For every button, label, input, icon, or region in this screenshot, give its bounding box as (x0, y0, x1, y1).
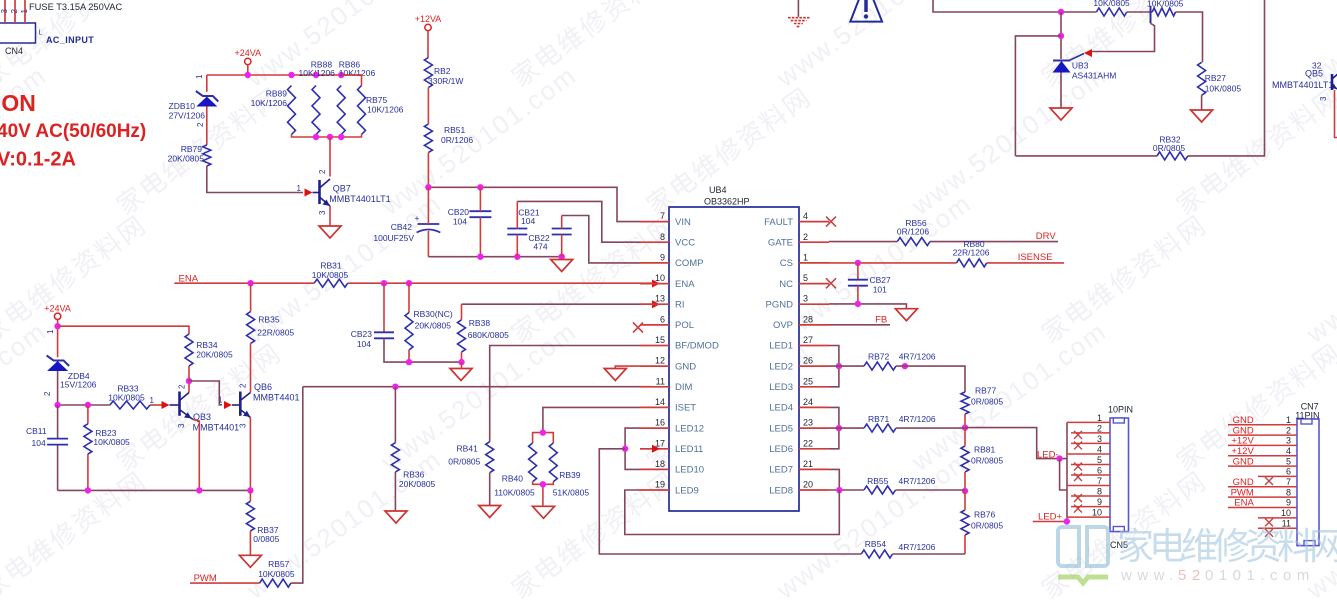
resistor RB76 (961, 510, 1003, 536)
wire ENA net (174, 282, 652, 284)
svg-text:5: 5 (1286, 456, 1291, 466)
svg-text:9: 9 (1286, 498, 1291, 508)
svg-text:26: 26 (803, 356, 813, 366)
svg-text:11PIN: 11PIN (1295, 411, 1319, 421)
junction rail RB23 (85, 487, 91, 493)
wire ZDB10 cathode (206, 75, 208, 92)
svg-text:14: 14 (655, 397, 665, 407)
shunt regulator UB3 AS431AHM (1053, 54, 1117, 81)
pin number 2 of QB6 (239, 383, 248, 388)
svg-text:CS: CS (780, 258, 793, 269)
wire RB54 to ladder (893, 553, 966, 555)
svg-text:DRV: DRV (1036, 231, 1057, 242)
svg-text:27: 27 (803, 335, 813, 345)
wire RB23 leads (87, 405, 89, 490)
svg-text:9: 9 (1097, 497, 1102, 507)
pin number 1 of CN4 (20, 9, 29, 14)
svg-text:RB76: RB76 (974, 510, 996, 520)
svg-text:RB51: RB51 (444, 125, 466, 135)
svg-text:1: 1 (1097, 413, 1102, 423)
pin number 1 of QB3 (150, 396, 155, 405)
svg-text:GND: GND (1233, 415, 1254, 426)
svg-text:2: 2 (43, 391, 52, 396)
wire LED8 to RB55 (829, 489, 864, 491)
svg-text:10K/1206: 10K/1206 (251, 98, 288, 108)
pin number 3 of QB3 (177, 423, 186, 428)
pin number 2 of ZDB4 (43, 391, 52, 396)
svg-text:6: 6 (660, 314, 665, 324)
svg-text:www.520101.com: www.520101.com (905, 315, 1112, 477)
wire CB27 top lead (857, 263, 859, 280)
svg-text:13: 13 (655, 294, 665, 304)
net label LED+ (1038, 512, 1062, 523)
transistor QB6 (224, 382, 300, 418)
wire LED4 LED6 bracket (829, 407, 839, 448)
svg-text:101: 101 (873, 285, 887, 295)
svg-text:104: 104 (357, 339, 371, 349)
svg-text:RB72: RB72 (868, 352, 890, 362)
svg-text:10K/1206: 10K/1206 (339, 68, 376, 78)
wire RB71 to ladder (896, 427, 965, 429)
resistor RB88 (299, 60, 336, 135)
resistor divider top left 10K/0805 (1093, 0, 1130, 16)
junction base line RB23 (85, 402, 91, 408)
no-connect X on CN7 pin 10 (1265, 518, 1273, 526)
svg-text:10K/0805: 10K/0805 (93, 437, 130, 447)
svg-text:CB42: CB42 (391, 222, 413, 232)
junction ENA CB23 (381, 280, 387, 286)
svg-text:6: 6 (1286, 467, 1291, 477)
wire CB23 RB30 RB38 bottom rail (384, 338, 462, 362)
wire RB79 to QB7 base (207, 166, 303, 193)
wire QB3 emitter (193, 420, 199, 491)
wire RB75 top corner (341, 75, 361, 86)
svg-text:+: + (415, 214, 420, 223)
svg-text:7: 7 (660, 211, 665, 221)
junction RB30 bottom (406, 359, 412, 365)
wire PWM net (190, 582, 260, 584)
connector CN7 11PIN (1228, 402, 1320, 546)
svg-text:474: 474 (533, 242, 547, 252)
junction RB72 out (902, 363, 908, 369)
wire RB37 top lead (249, 490, 251, 501)
svg-text:2: 2 (178, 384, 187, 389)
divider tap bar (1150, 6, 1152, 24)
svg-text:3: 3 (239, 423, 248, 428)
svg-text:2: 2 (239, 383, 248, 388)
svg-text:LED5: LED5 (769, 423, 793, 434)
junction LED2 bracket (836, 363, 842, 369)
resistor RB33 (108, 384, 150, 410)
wire bottom rail RB32 (1015, 0, 1264, 156)
ground PGND (895, 309, 917, 321)
svg-text:7: 7 (1286, 477, 1291, 487)
resistor RB35 (247, 312, 295, 344)
wire QB3 collector (188, 381, 190, 393)
svg-text:OVP: OVP (773, 320, 793, 331)
wire GND pin12 (615, 366, 640, 368)
ground QB7 emitter (319, 226, 341, 238)
svg-text:+24VA: +24VA (44, 304, 71, 314)
wire RB57 to DIM line (291, 387, 303, 583)
pin connect arrow UB3 ref (1084, 49, 1092, 57)
pin number 3 of QB5 (1319, 96, 1328, 101)
svg-text:4R7/1206: 4R7/1206 (899, 542, 936, 552)
wire VCC feed via CB21 (517, 201, 640, 242)
power +12VA (top) (415, 14, 442, 58)
svg-text:10: 10 (1092, 508, 1102, 518)
svg-text:20K/0805: 20K/0805 (196, 350, 233, 360)
svg-text:4R7/1206: 4R7/1206 (899, 414, 936, 424)
wire CB21 leads (516, 201, 518, 256)
junction CB21 bottom (514, 254, 520, 260)
svg-text:AC_INPUT: AC_INPUT (46, 35, 94, 45)
svg-text:RB71: RB71 (868, 414, 890, 424)
svg-text:16: 16 (655, 418, 665, 428)
resistor RB51 (424, 124, 473, 153)
svg-text:24: 24 (803, 397, 813, 407)
ground GND pin12 (604, 369, 626, 381)
pin number 3 of QB6 (239, 423, 248, 428)
svg-text:RB89: RB89 (266, 89, 288, 99)
wire QB7 emitter (329, 206, 331, 226)
svg-text:QB5: QB5 (1305, 69, 1323, 79)
wire RB2 to RB51 (427, 88, 429, 125)
svg-text:2: 2 (803, 232, 808, 242)
wire LED1 LED3 bracket (829, 346, 839, 387)
svg-text:+12V: +12V (1231, 446, 1254, 457)
resistor RB54 (861, 539, 935, 558)
wire COMP feed via CB22 (562, 216, 640, 263)
svg-text:RB39: RB39 (559, 470, 581, 480)
svg-text:RB31: RB31 (320, 261, 342, 271)
junction LED- (1056, 455, 1062, 461)
no-connect X on POL pin 6 (633, 323, 643, 333)
wire LED- lower link (1060, 459, 1067, 490)
svg-text:CB11: CB11 (26, 426, 47, 436)
svg-text:104: 104 (521, 216, 535, 226)
svg-text:1: 1 (803, 252, 808, 262)
wire emitter bottom rail (58, 489, 251, 491)
wire RB55 to ladder (896, 489, 966, 491)
svg-text:18: 18 (655, 459, 665, 469)
resistor RB23 (84, 424, 130, 454)
pin number 2 of QB7 (318, 169, 327, 174)
junction ENA RB30 (406, 280, 412, 286)
svg-text:5: 5 (1097, 455, 1102, 465)
svg-text:51K/0805: 51K/0805 (553, 488, 590, 498)
resistor RB56 (897, 218, 930, 246)
power +24VA (left) (44, 304, 71, 358)
wire LED12 LED10 bracket (625, 428, 640, 469)
svg-text:10K/0805: 10K/0805 (258, 569, 295, 579)
wire divider tap to UB3 ref (1091, 23, 1155, 51)
power +24VA (top) (234, 48, 261, 75)
svg-text:6: 6 (1097, 466, 1102, 476)
wire LED9 loop (625, 490, 840, 535)
svg-text:LED-: LED- (1037, 450, 1059, 461)
ground RB38 (450, 362, 472, 380)
svg-text:2: 2 (318, 169, 327, 174)
svg-text:VIN: VIN (675, 217, 691, 228)
svg-text:FAULT: FAULT (764, 217, 793, 228)
pin number 1 of QB7 (297, 184, 302, 193)
svg-text:NC: NC (779, 279, 793, 290)
svg-text:17: 17 (655, 438, 665, 448)
svg-text:52: 52 (1178, 567, 1206, 584)
junction RB86 top (338, 72, 344, 78)
pin number 2 of QB3 (178, 384, 187, 389)
no-connect X on CN5 pin 3 (1074, 441, 1082, 449)
warning triangle symbol (850, 0, 882, 22)
zener ZDB10 (169, 91, 219, 121)
wire CB42 leads (427, 187, 429, 256)
svg-text:20: 20 (803, 480, 813, 490)
resistor RB36 (391, 443, 435, 489)
junction RB40 RB39 bottom (540, 481, 546, 487)
wire RB38 top lead (461, 304, 463, 320)
svg-text:CB27: CB27 (870, 275, 892, 285)
no-connect X on CN5 pin 5 (1074, 462, 1082, 470)
svg-text:LED4: LED4 (769, 403, 793, 414)
net label FB (875, 315, 887, 326)
svg-text:GND: GND (1233, 425, 1254, 436)
wire QB7 collector (329, 137, 331, 177)
svg-text:1: 1 (46, 329, 55, 334)
svg-text:RB77: RB77 (975, 386, 997, 396)
svg-text:www.520101.com: www.520101.com (770, 0, 977, 93)
svg-text:RB79: RB79 (181, 144, 203, 154)
svg-text:1: 1 (195, 74, 204, 79)
svg-text:ION: ION (0, 90, 36, 116)
wire base line (58, 404, 110, 406)
junction rail QB3 emitter (196, 487, 202, 493)
svg-text:0R/0805: 0R/0805 (1153, 143, 1185, 153)
transistor QB3 (162, 392, 240, 433)
svg-text:RB41: RB41 (457, 444, 479, 454)
junction RB89 top (288, 72, 294, 78)
net label PWM (194, 573, 217, 584)
svg-text:GND: GND (1233, 477, 1254, 488)
svg-text:0R/0805: 0R/0805 (971, 521, 1003, 531)
junction CB22 bottom ground (559, 254, 565, 260)
svg-text:10K/0805: 10K/0805 (312, 270, 349, 280)
svg-text:RB81: RB81 (974, 445, 996, 455)
ground RB37 (239, 555, 261, 567)
net label ISENSE (1018, 252, 1053, 263)
svg-text:0R/0805: 0R/0805 (971, 397, 1003, 407)
svg-text:10K/0805: 10K/0805 (1147, 0, 1184, 9)
wire LED2 to RB72 (829, 365, 864, 367)
svg-text:19: 19 (655, 480, 665, 490)
capacitor CB23 (351, 329, 394, 349)
junction RB40 RB39 top (540, 429, 546, 435)
label AC_INPUT (46, 35, 94, 45)
svg-text:20K/0805: 20K/0805 (415, 321, 452, 331)
svg-text:RB55: RB55 (867, 476, 889, 486)
svg-text:家电维修资料网: 家电维修资料网 (1036, 209, 1212, 348)
capacitor CB22 (528, 229, 571, 252)
svg-text:RB75: RB75 (366, 95, 388, 105)
svg-text:10K/0805: 10K/0805 (1093, 0, 1130, 8)
no-connect X on FAULT pin 4 (826, 217, 836, 227)
junction LED11 bracket (622, 446, 628, 452)
resistor RB71 (864, 414, 936, 432)
svg-text:RB40: RB40 (502, 474, 524, 484)
wire UB3 cathode (1060, 12, 1062, 59)
svg-text:RB36: RB36 (403, 470, 425, 480)
svg-text:家电维修资料网: 家电维修资料网 (0, 465, 152, 600)
wire CB11 leads (57, 405, 59, 490)
wire RB35 to QB6 collector (250, 344, 252, 393)
svg-text:GND: GND (1233, 456, 1254, 467)
junction CB20 bottom (477, 254, 483, 260)
wire bottom rail of divider (292, 135, 362, 138)
svg-text:LED6: LED6 (769, 444, 793, 455)
svg-text:8: 8 (660, 232, 665, 242)
wire ZDB4 anode to base line (57, 371, 59, 405)
svg-text:12: 12 (655, 356, 665, 366)
svg-text:LED10: LED10 (675, 465, 704, 476)
svg-text:RB57: RB57 (268, 559, 290, 569)
svg-text:LED3: LED3 (769, 382, 793, 393)
resistor RB75 (358, 86, 404, 135)
wire GATE net (829, 241, 1058, 243)
svg-text:28: 28 (803, 314, 813, 324)
wire CB27 bottom lead (857, 286, 859, 304)
pin connect arrow LED11 pin17 (652, 445, 660, 453)
resistor RB34 (185, 334, 233, 366)
junction RB34 branch (54, 323, 60, 329)
svg-text:www.520101.com: www.520101.com (375, 59, 582, 221)
capacitor CB21 (507, 208, 540, 235)
svg-text:15: 15 (655, 335, 665, 345)
resistor RB38 (458, 318, 510, 352)
svg-text:4R7/1206: 4R7/1206 (899, 352, 936, 362)
net label DRV (1036, 231, 1057, 242)
wire top-right rail (933, 0, 1203, 62)
connector CN5 10PIN (1067, 405, 1133, 551)
wire RB27 to ground (1201, 95, 1203, 110)
capacitor CB27 (848, 275, 891, 295)
transistor QB5 MMBT4401LT1 (1272, 69, 1337, 138)
svg-text:MMBT4401LT1: MMBT4401LT1 (1272, 80, 1333, 90)
svg-text:10K/1206: 10K/1206 (299, 68, 336, 78)
svg-text:网: 网 (1309, 526, 1337, 567)
no-connect X on CN5 pin 9 (1074, 505, 1082, 513)
svg-text:MMBT4401: MMBT4401 (253, 393, 300, 403)
resistor RB40 (494, 443, 536, 498)
svg-text:LED7: LED7 (769, 465, 793, 476)
wire BF/DMOD to RB41 (490, 346, 640, 442)
wire RB34 branch (58, 326, 189, 334)
svg-text:27V/1206: 27V/1206 (169, 111, 206, 121)
wire RB37 to ground (249, 531, 251, 555)
svg-text:20K/0805: 20K/0805 (399, 479, 436, 489)
svg-text:22: 22 (803, 438, 813, 448)
capacitor CB11 (26, 426, 68, 448)
svg-text:10K/0805: 10K/0805 (1205, 84, 1242, 94)
pin connect arrow RI pin13 (652, 300, 660, 308)
wire CN4 pin 3 (4, 0, 6, 23)
svg-text:UB4: UB4 (709, 185, 727, 195)
wire RB40 RB39 bottom bracket (533, 482, 554, 507)
pin number 1 of QB6 (218, 396, 223, 405)
wire CN5 bus (1066, 422, 1068, 521)
svg-text:25: 25 (803, 376, 813, 386)
label FUSE T3.15A 250VAC (29, 2, 122, 12)
svg-text:V:0.1-2A: V:0.1-2A (0, 149, 76, 171)
wire QB3 collector to QB6 base (189, 381, 222, 405)
svg-text:0R/0805: 0R/0805 (448, 457, 480, 467)
pin number 2 of CN4 (10, 9, 19, 14)
svg-text:家电维修资料网: 家电维修资料网 (1171, 81, 1337, 220)
svg-text:22R/0805: 22R/0805 (257, 328, 294, 338)
wire LED5 to RB71 (829, 427, 864, 429)
junction DIM RB36 (392, 384, 398, 390)
pin number 3 of CN4 (0, 9, 9, 14)
svg-text:21: 21 (803, 459, 813, 469)
svg-text:AS431AHM: AS431AHM (1072, 71, 1116, 81)
no-connect X on CN7 pin 11 (1265, 529, 1273, 537)
wire OVP to FB (829, 324, 890, 326)
svg-text:LED8: LED8 (769, 485, 793, 496)
wire RB36 to ground (394, 472, 396, 511)
net label ENA (179, 274, 199, 285)
svg-text:3: 3 (1319, 96, 1328, 101)
resistor RB79 (168, 144, 211, 166)
svg-text:7: 7 (1097, 476, 1102, 486)
svg-text:GATE: GATE (768, 237, 793, 248)
wire LED- feed (965, 428, 1067, 459)
svg-text:104: 104 (32, 438, 46, 448)
svg-text:8: 8 (1097, 487, 1102, 497)
pin number 3 of QB7 (318, 210, 327, 215)
svg-text:0R/1206: 0R/1206 (441, 135, 473, 145)
connector CN4 body (0, 23, 36, 43)
ground CB22 (551, 260, 573, 272)
svg-text:MMBT4401LT1: MMBT4401LT1 (329, 194, 390, 204)
resistor RB2 (424, 58, 463, 88)
svg-text:RB38: RB38 (469, 318, 491, 328)
resistor RB72 (864, 352, 936, 371)
wire VIN rail (428, 187, 640, 221)
svg-text:23: 23 (803, 418, 813, 428)
svg-text:1: 1 (218, 396, 223, 405)
wire RB41 to ground (489, 473, 491, 506)
svg-text:3: 3 (318, 210, 327, 215)
resistor RB89 (251, 86, 296, 135)
svg-text:330R/1W: 330R/1W (428, 76, 463, 86)
svg-text:COMP: COMP (675, 258, 704, 269)
wire RB30 top lead (408, 283, 410, 312)
svg-text:2: 2 (1097, 423, 1102, 433)
svg-text:100UF25V: 100UF25V (373, 233, 414, 243)
junction CB20 top (477, 184, 483, 190)
svg-text:RB27: RB27 (1205, 73, 1227, 83)
svg-text:RB35: RB35 (258, 315, 280, 325)
junction CS CB27 (855, 260, 861, 266)
resistor RB55 (864, 476, 936, 494)
junction CB42 top (425, 184, 431, 190)
wire RB81 leads (964, 428, 966, 491)
svg-text:+12V: +12V (1231, 436, 1254, 447)
svg-text:3: 3 (803, 294, 808, 304)
svg-text:PWM: PWM (1231, 487, 1254, 498)
svg-text:LED9: LED9 (675, 485, 699, 496)
label CN4 (5, 46, 23, 56)
svg-text:FUSE T3.15A 250VAC: FUSE T3.15A 250VAC (29, 2, 122, 12)
